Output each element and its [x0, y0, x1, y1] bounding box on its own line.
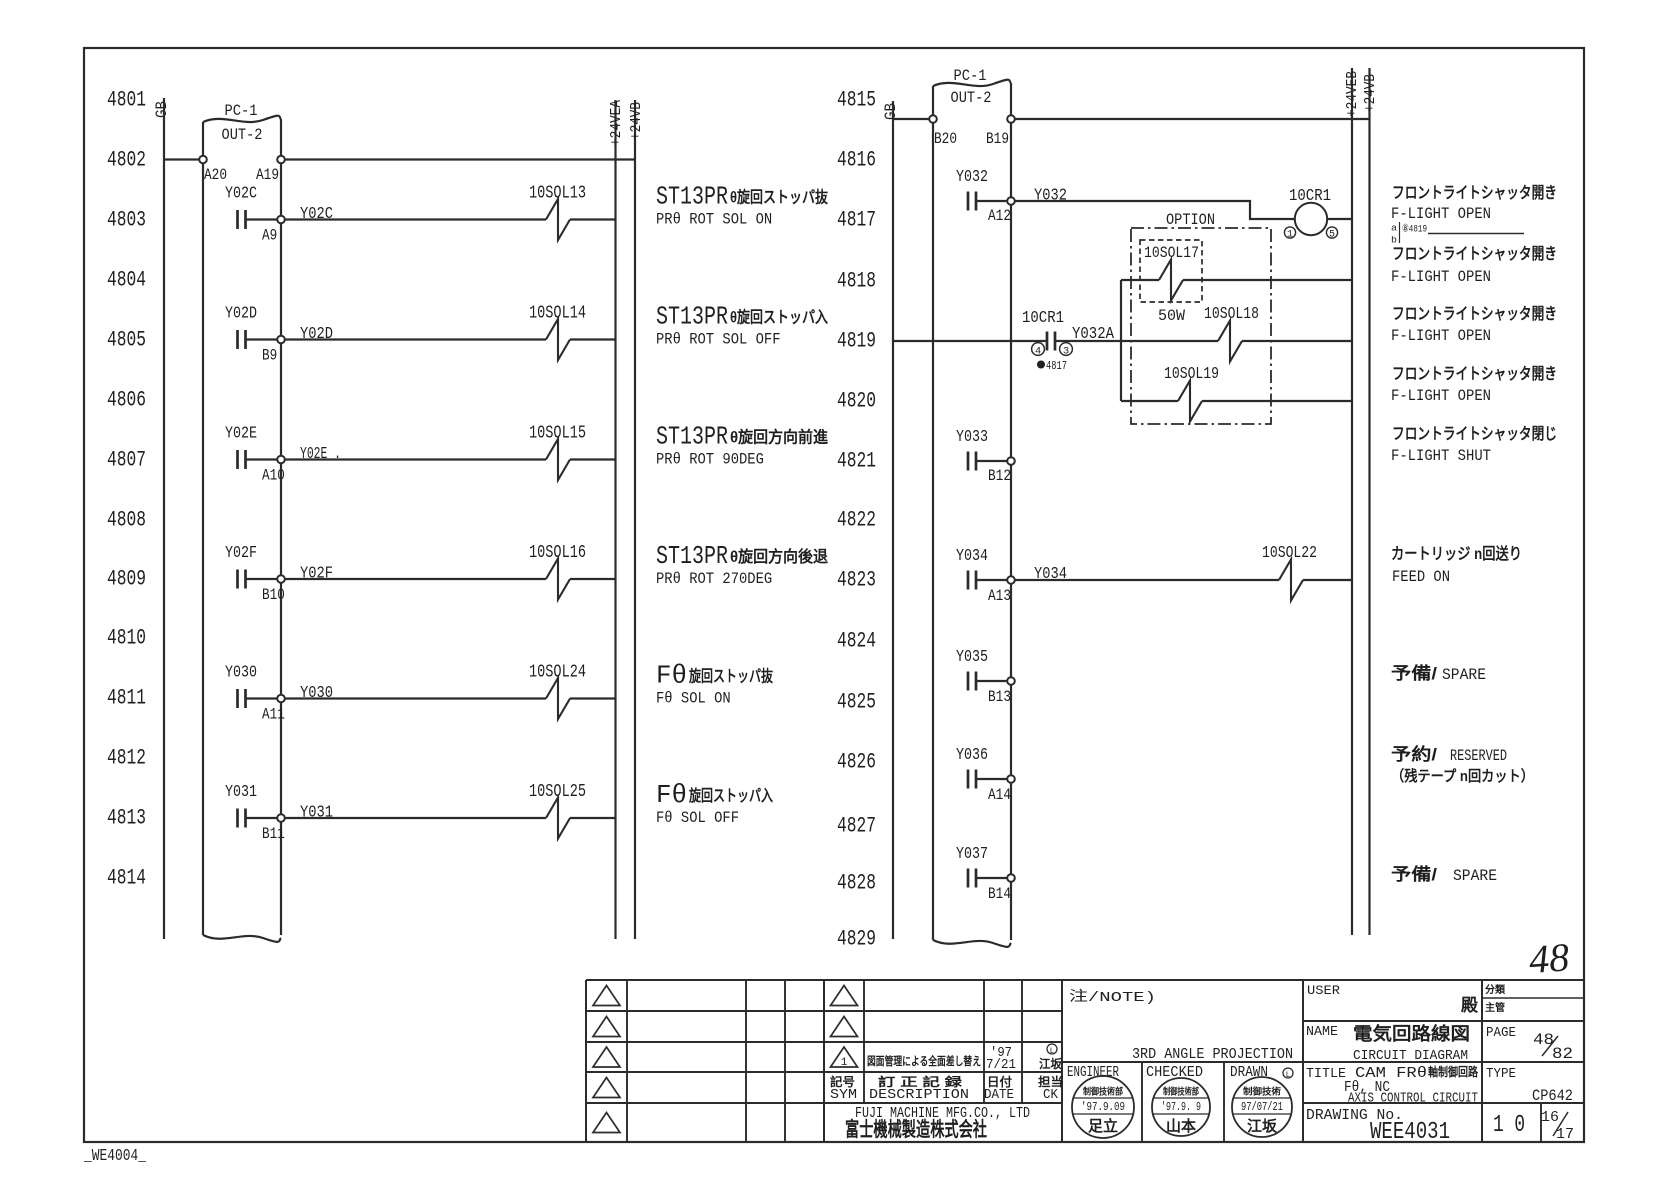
- svg-text:4810: 4810: [107, 626, 146, 651]
- svg-text:Fθ SOL OFF: Fθ SOL OFF: [656, 809, 739, 827]
- svg-text:50W: 50W: [1158, 307, 1185, 325]
- svg-text:θ旋回方向前進: θ旋回方向前進: [730, 428, 828, 447]
- svg-text:Y02C: Y02C: [225, 185, 257, 204]
- solenoid 10SOL22: [1279, 560, 1303, 601]
- revision triangles (right table): [831, 986, 858, 1006]
- svg-text:DRAWN: DRAWN: [1230, 1065, 1268, 1081]
- svg-text:江坂: 江坂: [1039, 1056, 1063, 1071]
- wire contact Y034 to node A13: [976, 579, 1008, 581]
- wire contact Y030 to node A11: [246, 697, 278, 699]
- svg-text:1: 1: [1287, 230, 1293, 241]
- solenoid 10SOL25: [546, 798, 570, 839]
- svg-text:Y030: Y030: [225, 664, 257, 683]
- svg-text:4: 4: [1035, 346, 1041, 358]
- svg-text:A9: A9: [262, 227, 277, 245]
- svg-text:NAME: NAME: [1306, 1024, 1338, 1040]
- svg-text:主管: 主管: [1485, 1001, 1505, 1014]
- svg-text:SPARE: SPARE: [1453, 867, 1497, 885]
- svg-text:10SOL24: 10SOL24: [529, 663, 586, 683]
- svg-text:軸制御回路: 軸制御回路: [1428, 1064, 1479, 1079]
- svg-text:注/NOTE): 注/NOTE): [1069, 989, 1156, 1006]
- solenoid 10SOL19: [1178, 381, 1202, 422]
- cross-reference coil 4817: [1037, 361, 1045, 369]
- wire rung (node B10 to solenoid 10SOL16): [285, 578, 547, 580]
- revision triangle symbol L3: [593, 1047, 620, 1067]
- wire relay 10CR1 to +24VEB rail: [1327, 218, 1352, 220]
- svg-text:Y035: Y035: [956, 648, 988, 667]
- svg-text:RESERVED: RESERVED: [1450, 747, 1507, 765]
- wire rung 4820 (branch to solenoid 10SOL19): [1121, 400, 1178, 402]
- output contact Y037 (spare): [967, 869, 970, 888]
- wire solenoid 10SOL15 to +24VEA rail: [570, 458, 616, 460]
- svg-text:GB: GB: [153, 101, 171, 118]
- wire rung 4815 (B19 to +24VB rail): [1015, 118, 1370, 120]
- svg-text:B14: B14: [988, 885, 1011, 903]
- power rail +24VB (left): [634, 100, 636, 939]
- svg-text:Y030: Y030: [300, 684, 333, 703]
- node pin A12: [1007, 197, 1015, 205]
- svg-text:4805: 4805: [107, 328, 146, 353]
- relay contact 10CR1 (rung 4819): [1046, 332, 1049, 351]
- svg-text:Y02E: Y02E: [225, 425, 257, 444]
- svg-text:4807: 4807: [107, 448, 146, 473]
- svg-text:4818: 4818: [837, 269, 876, 294]
- svg-text:Y02F: Y02F: [300, 565, 333, 584]
- wire solenoid 10SOL24 to +24VEA rail: [570, 697, 616, 699]
- node pin A13: [1007, 576, 1015, 584]
- revision table (right): [863, 980, 865, 1103]
- revision triangle symbol L2: [593, 1017, 620, 1037]
- svg-text:PAGE: PAGE: [1486, 1025, 1516, 1041]
- svg-text:PRθ ROT SOL ON: PRθ ROT SOL ON: [656, 211, 772, 229]
- svg-text:フロントライトシャッタ開き: フロントライトシャッタ開き: [1392, 305, 1557, 323]
- wire rung (node A10 to solenoid 10SOL15): [285, 458, 547, 460]
- svg-text:OUT-2: OUT-2: [222, 126, 263, 144]
- svg-text:F-LIGHT OPEN: F-LIGHT OPEN: [1391, 268, 1491, 286]
- revision table (left): [586, 1010, 1062, 1012]
- wire contact Y037 to node B14: [976, 877, 1008, 879]
- svg-text:B20: B20: [934, 130, 957, 148]
- svg-text:10SOL17: 10SOL17: [1144, 244, 1199, 262]
- svg-text:θ旋回ストッパ抜: θ旋回ストッパ抜: [730, 188, 829, 207]
- svg-text:4812: 4812: [107, 746, 146, 771]
- wire rung 4819 (contact to branch node): [1055, 340, 1121, 342]
- svg-text:B11: B11: [262, 825, 285, 843]
- wire solenoid 10SOL25 to +24VEA rail: [570, 817, 616, 819]
- svg-text:制御技術部: 制御技術部: [1083, 1086, 1123, 1097]
- output contact Y02E (left PC-1): [236, 450, 239, 469]
- svg-text:4801: 4801: [107, 88, 146, 113]
- svg-text:Y037: Y037: [956, 845, 988, 864]
- solenoid 10SOL17: [1159, 260, 1183, 301]
- svg-text:82: 82: [1552, 1045, 1573, 1063]
- wire solenoid 10SOL14 to +24VEA rail: [570, 338, 616, 340]
- node pin B13: [1007, 677, 1015, 685]
- svg-text:フロントライトシャッタ開き: フロントライトシャッタ開き: [1392, 365, 1557, 383]
- svg-text:10SOL16: 10SOL16: [529, 543, 586, 563]
- solenoid 10SOL24: [546, 678, 570, 719]
- svg-text:フロントライトシャッタ開き: フロントライトシャッタ開き: [1392, 245, 1557, 263]
- revision triangle symbol L4: [593, 1078, 620, 1098]
- svg-text:（残テープ n回カット）: （残テープ n回カット）: [1391, 767, 1534, 785]
- wire rung 4819 (10SOL18 to +24VEB rail): [1242, 340, 1352, 342]
- wire contact Y031 to node B11: [246, 817, 278, 819]
- wire rung 4818 (branch to solenoid 10SOL17): [1121, 279, 1159, 281]
- wire contact Y02F to node B10: [246, 578, 278, 580]
- output contact Y02F (left PC-1): [236, 570, 239, 589]
- svg-text:4819: 4819: [837, 329, 876, 354]
- svg-text:制御技術: 制御技術: [1243, 1086, 1281, 1097]
- node pin A20: [199, 156, 207, 164]
- output contact Y02D (left PC-1): [236, 330, 239, 349]
- node pin B10: [277, 575, 285, 583]
- stamp CHECKED: [1152, 1078, 1210, 1136]
- power rail +24VB (right): [1368, 68, 1370, 935]
- svg-text:4803: 4803: [107, 208, 146, 233]
- wire contact Y032 to node A12: [976, 200, 1008, 202]
- svg-text:4809: 4809: [107, 567, 146, 592]
- svg-text:⑧4819: ⑧4819: [1402, 223, 1427, 236]
- svg-text:10CR1: 10CR1: [1289, 187, 1331, 206]
- svg-text:フロントライトシャッタ開き: フロントライトシャッタ開き: [1392, 184, 1557, 202]
- wire rung (node A9 to solenoid 10SOL13): [285, 218, 547, 220]
- svg-text:Fθ: Fθ: [656, 661, 687, 691]
- svg-text:A19: A19: [256, 166, 279, 184]
- title cell: [1303, 1102, 1584, 1104]
- svg-text:+24VB: +24VB: [1362, 74, 1379, 112]
- svg-text:DESCRIPTION: DESCRIPTION: [869, 1087, 969, 1103]
- OPTION group box (dash-dot): [1131, 228, 1271, 424]
- node pin B20: [929, 115, 937, 123]
- node pin B9: [277, 336, 285, 344]
- bus GB left vertical rail: [163, 98, 165, 939]
- svg-text:Y034: Y034: [1034, 565, 1067, 584]
- wire rung 4823 (10SOL22 to +24VEB rail): [1303, 579, 1352, 581]
- node pin B11: [277, 814, 285, 822]
- svg-text:Fθ SOL ON: Fθ SOL ON: [656, 690, 731, 708]
- svg-text:4825: 4825: [837, 690, 876, 715]
- svg-text:θ旋回ストッパ入: θ旋回ストッパ入: [730, 308, 828, 327]
- stamp DRAWN: [1232, 1077, 1292, 1137]
- output contact Y033: [967, 452, 970, 471]
- svg-text:殿: 殿: [1460, 996, 1479, 1015]
- svg-text:4824: 4824: [837, 629, 876, 654]
- svg-text:FEED ON: FEED ON: [1392, 568, 1450, 586]
- svg-text:富士機械製造株式会社: 富士機械製造株式会社: [845, 1117, 987, 1141]
- svg-text:48: 48: [1528, 934, 1571, 982]
- output contact Y030 (left PC-1): [236, 689, 239, 708]
- svg-text:SPARE: SPARE: [1442, 666, 1486, 684]
- classification cells: [1481, 980, 1483, 1142]
- svg-text:4815: 4815: [837, 88, 876, 113]
- svg-text:b: b: [1391, 235, 1397, 246]
- svg-text:a: a: [1391, 223, 1397, 234]
- wire solenoid 10SOL16 to +24VEA rail: [570, 578, 616, 580]
- svg-text:17: 17: [1556, 1126, 1574, 1143]
- svg-text:7/21: 7/21: [986, 1057, 1016, 1073]
- circled L mark (drawn): [1283, 1068, 1293, 1078]
- svg-text:WEE4031: WEE4031: [1370, 1119, 1450, 1146]
- svg-text:Y02F: Y02F: [225, 544, 257, 563]
- solenoid 10SOL18: [1218, 321, 1242, 362]
- svg-text:USER: USER: [1307, 983, 1340, 998]
- svg-text:4813: 4813: [107, 806, 146, 831]
- svg-text:GB: GB: [882, 103, 900, 120]
- svg-text:Y031: Y031: [300, 804, 333, 823]
- wire rung 4820 (10SOL19 to +24VEB rail): [1202, 400, 1352, 402]
- wire rung 4823 (A13 to solenoid 10SOL22): [1015, 579, 1280, 581]
- svg-text:ST13PR: ST13PR: [656, 541, 728, 571]
- svg-text:+24VB: +24VB: [628, 102, 645, 140]
- output contact Y036 (spare): [967, 770, 970, 789]
- pin 5 of relay 10CR1: [1326, 227, 1337, 238]
- wire rung 4819 (GB to contact 10CR1): [893, 340, 1047, 342]
- svg-text:48: 48: [1533, 1031, 1554, 1049]
- svg-text:Y031: Y031: [225, 783, 257, 802]
- svg-text:Y032: Y032: [1034, 187, 1067, 206]
- svg-text:10SOL13: 10SOL13: [529, 184, 586, 204]
- wire rung (node B11 to solenoid 10SOL25): [285, 817, 547, 819]
- svg-text:予備/: 予備/: [1391, 864, 1437, 884]
- revision triangle symbol L1: [593, 986, 620, 1006]
- svg-text:予約/: 予約/: [1391, 744, 1437, 764]
- node pin A11: [277, 695, 285, 703]
- node pin A19: [277, 156, 285, 164]
- svg-text:16: 16: [1541, 1109, 1559, 1126]
- svg-text:1: 1: [841, 1057, 848, 1069]
- solenoid 10SOL16: [546, 559, 570, 600]
- svg-text:1 0: 1 0: [1493, 1112, 1525, 1139]
- svg-text:10SOL14: 10SOL14: [529, 304, 586, 324]
- power rail +24VEB (right): [1351, 68, 1353, 935]
- bus GB right vertical rail: [892, 101, 894, 939]
- svg-text:PRθ ROT 270DEG: PRθ ROT 270DEG: [656, 570, 772, 588]
- svg-text:TYPE: TYPE: [1486, 1066, 1516, 1082]
- wire rung 4815 (GB to pin B20): [893, 118, 930, 120]
- wire contact Y02C to node A9: [246, 218, 278, 220]
- junction branch vertical (4818-4820): [1120, 280, 1122, 401]
- svg-text:A13: A13: [988, 587, 1011, 605]
- svg-text:4827: 4827: [837, 814, 876, 839]
- svg-text:DATE: DATE: [984, 1087, 1014, 1103]
- wire rung 4817 (A12 to relay coil): [1015, 201, 1296, 219]
- svg-text:B13: B13: [988, 688, 1011, 706]
- svg-text:分類: 分類: [1485, 983, 1506, 996]
- svg-text:A14: A14: [988, 786, 1011, 804]
- svg-text:A12: A12: [988, 207, 1011, 225]
- svg-text:4814: 4814: [107, 866, 146, 891]
- svg-text:97/07/21: 97/07/21: [1241, 1101, 1283, 1114]
- svg-text:B10: B10: [262, 586, 285, 604]
- svg-text:制御技術部: 制御技術部: [1163, 1086, 1199, 1097]
- svg-text:4828: 4828: [837, 871, 876, 896]
- PLC unit PC-1 OUT-2 (left) box: [202, 122, 204, 935]
- svg-text:AXIS CONTROL CIRCUIT: AXIS CONTROL CIRCUIT: [1348, 1091, 1478, 1107]
- node pin B19: [1007, 115, 1015, 123]
- svg-text:L: L: [1286, 1071, 1291, 1080]
- svg-text:Y034: Y034: [956, 547, 988, 566]
- svg-text:PRθ ROT SOL OFF: PRθ ROT SOL OFF: [656, 331, 781, 349]
- title block outer structure: [586, 979, 1584, 981]
- svg-text:カートリッジ n回送り: カートリッジ n回送り: [1391, 544, 1522, 563]
- svg-text:CK: CK: [1043, 1087, 1059, 1103]
- wire solenoid 10SOL13 to +24VEA rail: [570, 218, 616, 220]
- svg-text:OUT-2: OUT-2: [951, 89, 992, 107]
- svg-text:4804: 4804: [107, 268, 146, 293]
- svg-text:PC-1: PC-1: [225, 102, 258, 120]
- wire rung 4818 (10SOL17 to +24VEB rail): [1183, 279, 1352, 281]
- svg-text:旋回ストッパ入: 旋回ストッパ入: [688, 786, 773, 805]
- svg-text:4806: 4806: [107, 388, 146, 413]
- node pin A10: [277, 456, 285, 464]
- svg-text:4802: 4802: [107, 148, 146, 173]
- solenoid 10SOL15: [546, 439, 570, 480]
- svg-text:3RD ANGLE PROJECTION: 3RD ANGLE PROJECTION: [1132, 1046, 1293, 1063]
- wire rung 4802 (GB to pin A20): [164, 158, 200, 160]
- svg-text:F-LIGHT OPEN: F-LIGHT OPEN: [1391, 387, 1491, 405]
- svg-text:Y02E .: Y02E .: [300, 445, 341, 464]
- svg-text:θ旋回方向後退: θ旋回方向後退: [730, 547, 828, 566]
- node pin A14: [1007, 775, 1015, 783]
- svg-text:Y036: Y036: [956, 746, 988, 765]
- svg-text:Fθ: Fθ: [656, 780, 687, 810]
- node pin B12: [1007, 457, 1015, 465]
- svg-text:SYM: SYM: [830, 1087, 857, 1103]
- wire rung 4819 (branch to solenoid 10SOL18): [1121, 340, 1218, 342]
- output contact Y034: [967, 571, 970, 590]
- svg-text:4817: 4817: [1046, 359, 1067, 373]
- svg-text:F-LIGHT OPEN: F-LIGHT OPEN: [1391, 327, 1491, 345]
- power rail +24VEA (left): [614, 100, 616, 939]
- approval cells: [1141, 1062, 1143, 1142]
- svg-text:10SOL22: 10SOL22: [1262, 544, 1317, 563]
- svg-text:Y02C: Y02C: [300, 205, 333, 224]
- PLC unit PC-1 OUT-2 (right) box: [932, 86, 934, 940]
- svg-text:L: L: [1050, 1047, 1055, 1056]
- wire contact Y033 to node B12: [976, 460, 1008, 462]
- svg-text:3: 3: [1063, 346, 1069, 358]
- output contact Y02C (left PC-1): [236, 210, 239, 229]
- svg-text:Y032: Y032: [956, 168, 988, 187]
- output contact Y031 (left PC-1): [236, 809, 239, 828]
- svg-text:Y033: Y033: [956, 428, 988, 447]
- output contact Y035 (spare): [967, 672, 970, 691]
- wire contact Y02E to node A10: [246, 458, 278, 460]
- svg-text:A11: A11: [262, 706, 285, 724]
- node pin A9: [277, 216, 285, 224]
- svg-text:10CR1: 10CR1: [1022, 309, 1064, 328]
- revision triangle 1 with note: [831, 1047, 858, 1067]
- svg-text:旋回ストッパ抜: 旋回ストッパ抜: [688, 667, 773, 686]
- svg-text:図面管理による全面差し替え: 図面管理による全面差し替え: [867, 1054, 981, 1068]
- svg-text:4822: 4822: [837, 508, 876, 533]
- wire rung (node B9 to solenoid 10SOL14): [285, 338, 547, 340]
- svg-text:10SOL18: 10SOL18: [1204, 305, 1259, 324]
- svg-text:+24VEB: +24VEB: [1344, 71, 1361, 117]
- svg-text:ST13PR: ST13PR: [656, 302, 728, 332]
- svg-text:Y02D: Y02D: [300, 325, 333, 344]
- svg-text:4816: 4816: [837, 148, 876, 173]
- svg-text:4811: 4811: [107, 686, 146, 711]
- output contact Y032: [967, 192, 970, 211]
- wire contact Y035 to node B13: [976, 680, 1008, 682]
- svg-text:'97.9.09: '97.9.09: [1081, 1101, 1125, 1114]
- svg-text:PRθ ROT 90DEG: PRθ ROT 90DEG: [656, 451, 764, 469]
- svg-text:10SOL25: 10SOL25: [529, 782, 586, 802]
- node pin B14: [1007, 874, 1015, 882]
- svg-text:10SOL15: 10SOL15: [529, 424, 586, 444]
- svg-text:4821: 4821: [837, 449, 876, 474]
- solenoid 10SOL13: [546, 199, 570, 240]
- svg-text:B12: B12: [988, 467, 1011, 485]
- svg-text:CP642: CP642: [1532, 1087, 1573, 1105]
- svg-text:PC-1: PC-1: [954, 67, 987, 85]
- svg-text:Y02D: Y02D: [225, 305, 257, 324]
- svg-text:ENGINEER: ENGINEER: [1067, 1065, 1119, 1081]
- svg-text:電気回路線図: 電気回路線図: [1353, 1023, 1470, 1044]
- svg-text:4826: 4826: [837, 750, 876, 775]
- wire rung 4802 (A19 to +24VB rail): [285, 158, 636, 160]
- name cell: [1303, 1061, 1584, 1063]
- svg-text:A20: A20: [204, 166, 227, 184]
- pin 3 of contact 10CR1: [1060, 343, 1073, 356]
- svg-text:5: 5: [1329, 230, 1335, 241]
- svg-text:'97.9. 9: '97.9. 9: [1161, 1101, 1201, 1114]
- svg-text:OPTION: OPTION: [1166, 211, 1215, 229]
- enclosure box for 10SOL17 (dashed): [1140, 240, 1202, 302]
- svg-text:B19: B19: [986, 130, 1009, 148]
- svg-text:フロントライトシャッタ閉じ: フロントライトシャッタ閉じ: [1392, 425, 1557, 443]
- svg-text:CIRCUIT DIAGRAM: CIRCUIT DIAGRAM: [1353, 1048, 1468, 1064]
- svg-text:TITLE: TITLE: [1306, 1066, 1346, 1082]
- wire rung (node A11 to solenoid 10SOL24): [285, 697, 547, 699]
- svg-text:足立: 足立: [1088, 1117, 1118, 1135]
- svg-text:ST13PR: ST13PR: [656, 182, 728, 212]
- svg-text:4817: 4817: [837, 208, 876, 233]
- relay coil 10CR1: [1295, 203, 1327, 235]
- svg-text:4829: 4829: [837, 927, 876, 952]
- svg-text:F-LIGHT OPEN: F-LIGHT OPEN: [1391, 205, 1491, 223]
- user cell: [1303, 1020, 1584, 1022]
- svg-text:B9: B9: [262, 347, 277, 365]
- solenoid 10SOL14: [546, 319, 570, 360]
- wire contact Y036 to node A14: [976, 778, 1008, 780]
- svg-text:10SOL19: 10SOL19: [1164, 365, 1219, 384]
- svg-text:F-LIGHT SHUT: F-LIGHT SHUT: [1391, 447, 1491, 465]
- svg-text:ST13PR: ST13PR: [656, 422, 728, 452]
- revision triangle symbol L5: [593, 1113, 620, 1133]
- svg-text:4820: 4820: [837, 389, 876, 414]
- svg-text:江坂: 江坂: [1247, 1117, 1278, 1135]
- svg-text:_WE4004_: _WE4004_: [83, 1147, 146, 1166]
- pin 1 of relay 10CR1: [1284, 227, 1295, 238]
- svg-text:山本: 山本: [1166, 1117, 1196, 1135]
- svg-text:A10: A10: [262, 467, 285, 485]
- pin 4 of contact 10CR1: [1032, 343, 1045, 356]
- stamp ENGINEER (date 97.9.09 name): [1072, 1076, 1134, 1138]
- svg-text:4823: 4823: [837, 568, 876, 593]
- wire contact Y02D to node B9: [246, 338, 278, 340]
- svg-text:+24VEA: +24VEA: [608, 100, 625, 146]
- svg-text:予備/: 予備/: [1391, 663, 1437, 683]
- svg-text:4808: 4808: [107, 508, 146, 533]
